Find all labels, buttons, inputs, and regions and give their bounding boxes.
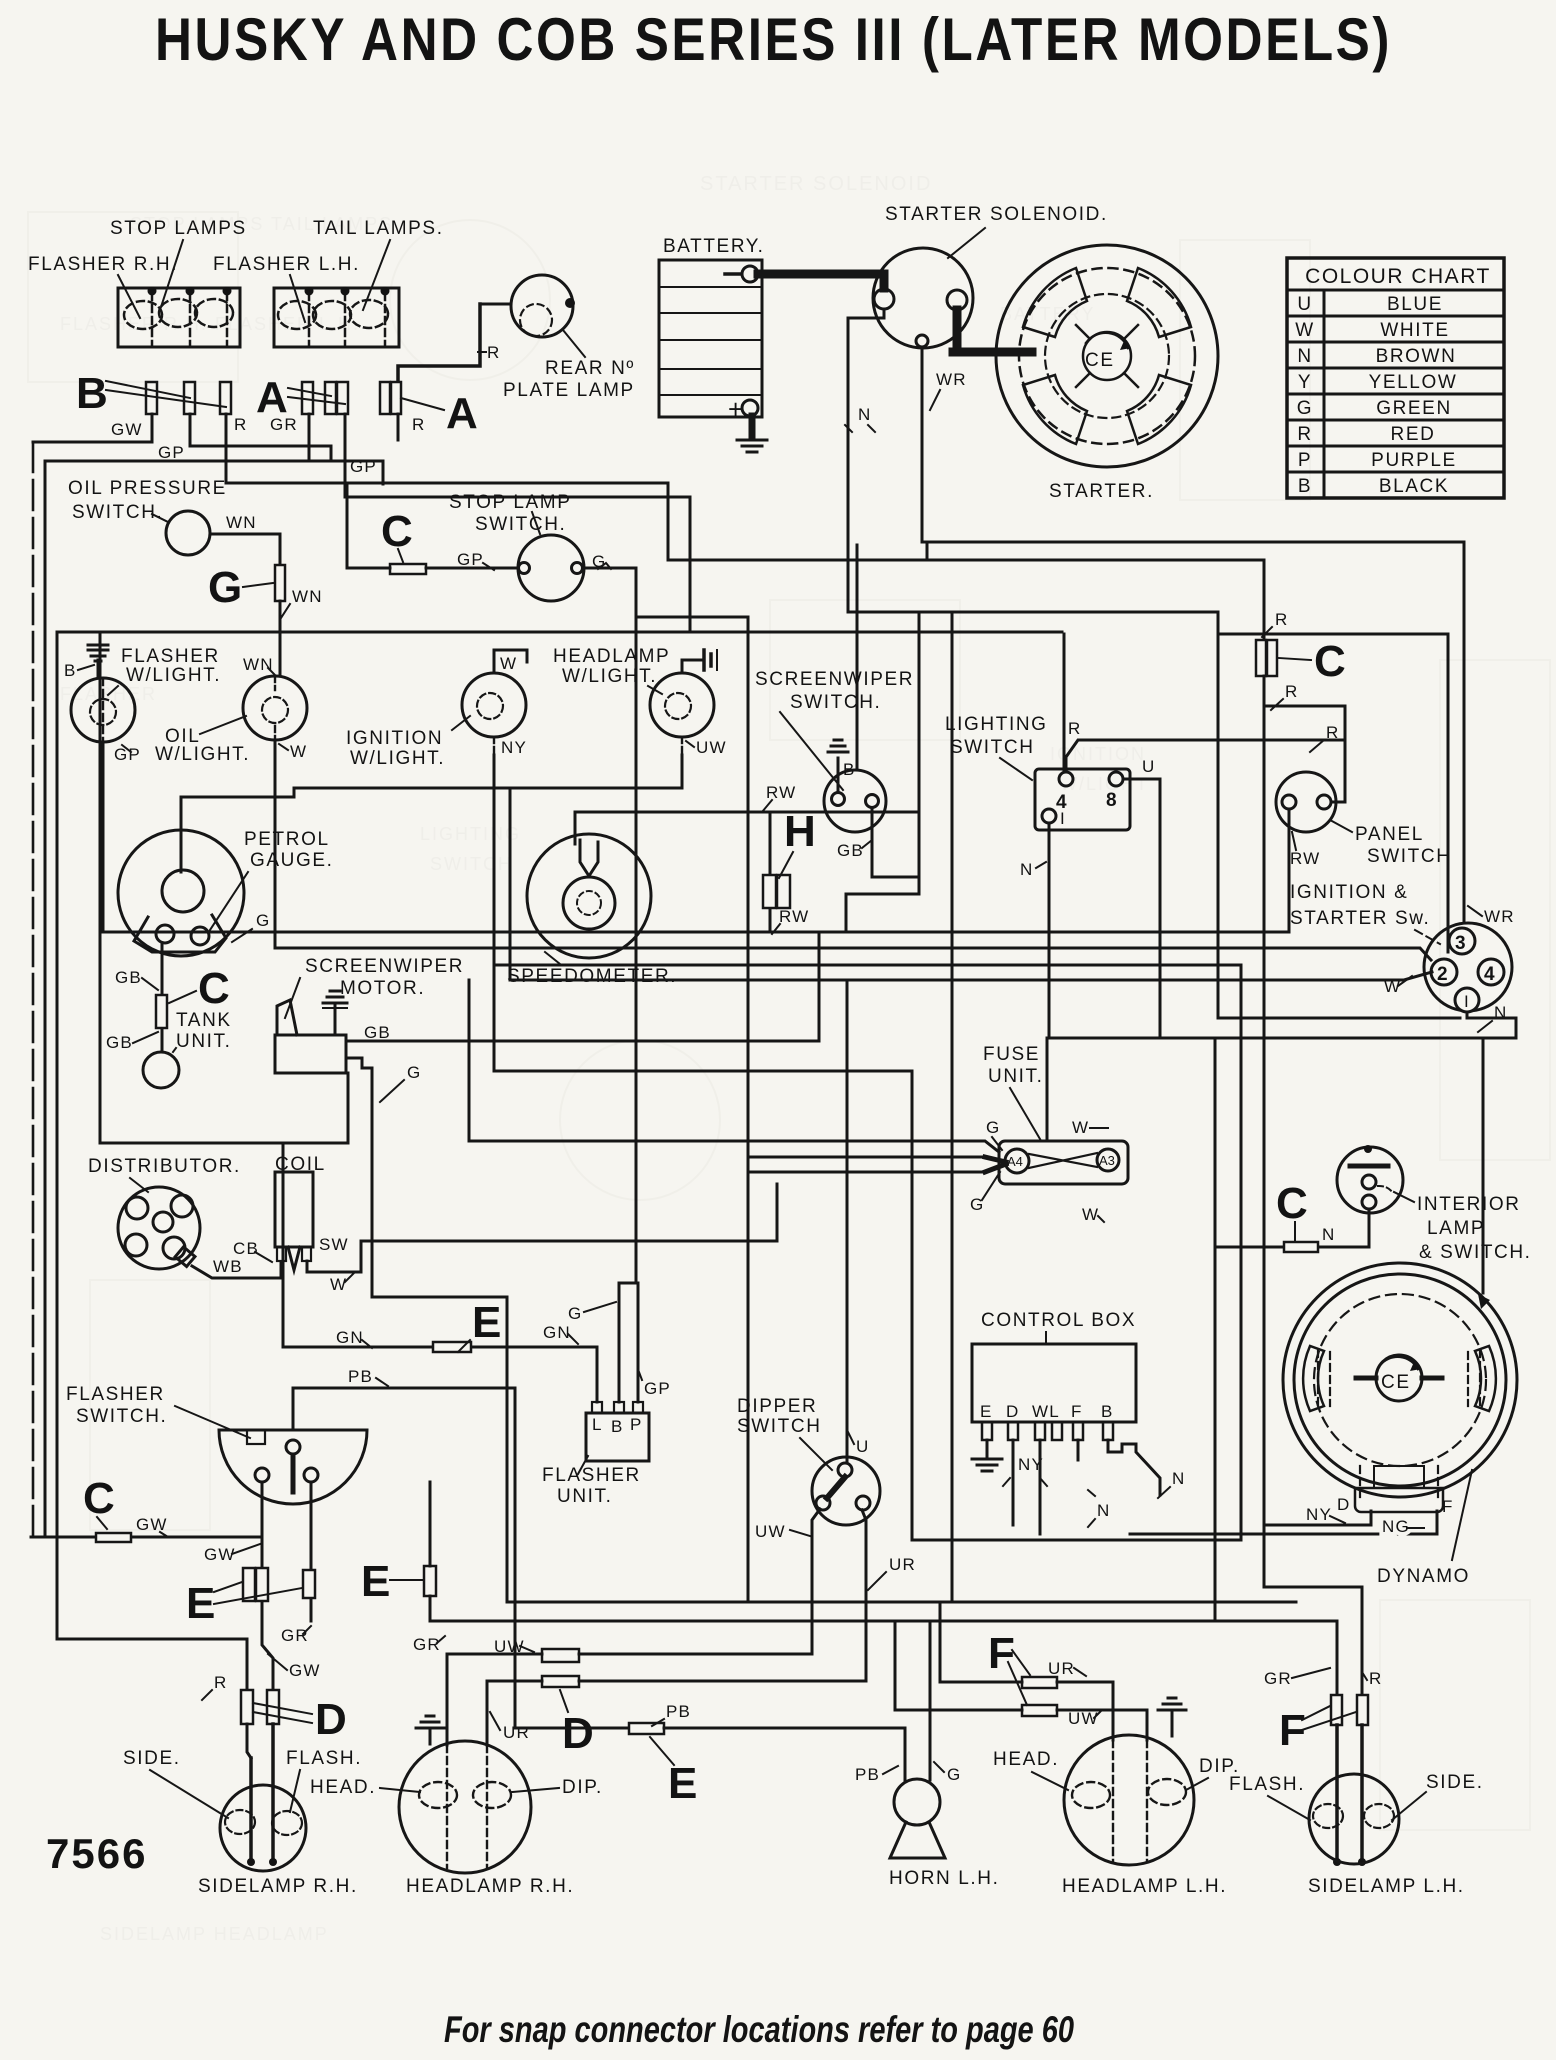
svg-text:D: D	[562, 1709, 594, 1758]
fuse unit	[970, 1044, 1128, 1224]
svg-text:L: L	[592, 1415, 603, 1434]
panel left/right verticals	[100, 632, 348, 1143]
svg-text:DISTRIBUTOR.: DISTRIBUTOR.	[88, 1156, 241, 1177]
control box	[972, 1310, 1136, 1440]
svg-text:STARTER SOLENOID: STARTER SOLENOID	[700, 173, 932, 195]
svg-text:SWITCH: SWITCH	[1367, 846, 1452, 867]
ignition w/light	[346, 673, 526, 769]
svg-text:CONTROL BOX: CONTROL BOX	[981, 1310, 1136, 1331]
svg-text:OIL PRESSURE: OIL PRESSURE	[68, 478, 227, 499]
oil pressure switch	[68, 478, 227, 555]
svg-text:HORN L.H.: HORN L.H.	[889, 1868, 999, 1889]
svg-text:E: E	[361, 1557, 390, 1606]
svg-text:GW: GW	[289, 1661, 321, 1680]
svg-text:D: D	[1006, 1402, 1019, 1421]
svg-text:WN: WN	[292, 587, 323, 606]
wire GP (L.H.)	[345, 414, 690, 632]
svg-text:UNIT.: UNIT.	[176, 1031, 232, 1052]
wire battery to solenoid (thick)	[758, 274, 884, 288]
sidelamp L.H.	[1229, 1772, 1484, 1897]
wire R (left unit) long run to right	[226, 414, 1264, 640]
svg-text:LIGHTING: LIGHTING	[420, 824, 521, 844]
svg-text:GB: GB	[364, 1023, 391, 1042]
tank unit	[143, 1010, 232, 1088]
svg-text:FLASH.: FLASH.	[1229, 1774, 1305, 1795]
wire bus RW	[103, 931, 1288, 934]
wire F from control box	[1077, 1440, 1080, 1460]
svg-text:STARTER.: STARTER.	[1049, 481, 1154, 502]
svg-text:W: W	[1072, 1118, 1089, 1137]
wires to right sidelamp area	[1264, 706, 1362, 1695]
ground headlamp L.H.	[1171, 1712, 1174, 1736]
rear number plate lamp	[480, 275, 635, 401]
svg-text:U: U	[1297, 294, 1312, 315]
wire GR from flasher switch right terminal	[310, 1482, 313, 1621]
connectors F (headlamp L.H.)	[1022, 1677, 1057, 1688]
capacitor/earth symbol right of headlamp w/light	[682, 650, 717, 673]
svg-text:LIGHTING: LIGHTING	[945, 714, 1048, 735]
wire WB distributor to coil	[192, 1262, 281, 1278]
wire R from lighting switch 4	[1066, 740, 1345, 772]
connector C (R, right side)	[1256, 640, 1266, 676]
stop lamp switch	[449, 492, 584, 601]
svg-text:WR: WR	[1484, 907, 1515, 926]
speedometer	[507, 834, 677, 987]
svg-text:G: G	[986, 1118, 1000, 1137]
svg-text:HEAD.: HEAD.	[993, 1749, 1059, 1770]
svg-text:BLUE: BLUE	[1387, 294, 1443, 315]
svg-text:HEAD.: HEAD.	[310, 1777, 376, 1798]
svg-text:R: R	[234, 415, 247, 434]
svg-text:W/LIGHT.: W/LIGHT.	[155, 744, 250, 765]
svg-text:WN: WN	[226, 513, 257, 532]
oil w/light	[155, 655, 307, 765]
svg-text:P: P	[1298, 450, 1312, 471]
svg-text:B: B	[843, 760, 856, 779]
wire N from ignition switch 1	[1049, 1012, 1516, 1038]
wire G to flasher unit B	[618, 1283, 621, 1402]
svg-text:R: R	[412, 415, 425, 434]
wire GP to flasher unit P	[637, 1283, 640, 1402]
wire R from rear lamp to connector A	[398, 304, 480, 381]
svg-text:GP: GP	[158, 443, 185, 462]
wire WN	[210, 534, 280, 565]
svg-text:UR: UR	[1048, 1659, 1075, 1678]
svg-text:PB: PB	[666, 1702, 691, 1721]
svg-text:A: A	[446, 389, 478, 438]
svg-text:CB: CB	[233, 1239, 259, 1258]
svg-text:SIDELAMP L.H.: SIDELAMP L.H.	[1308, 1876, 1465, 1897]
bottom buses	[430, 1602, 1337, 1621]
svg-text:HEADLAMP R.H.: HEADLAMP R.H.	[406, 1876, 574, 1897]
wire R from connector C to panel switch	[1264, 676, 1345, 802]
wire to ignition switch area	[1218, 634, 1448, 952]
svg-text:I: I	[1464, 992, 1470, 1011]
coil	[275, 1154, 355, 1294]
svg-text:R: R	[1369, 1669, 1382, 1688]
wire bus GP	[45, 461, 383, 484]
wire to screenwiper switch	[856, 545, 859, 770]
connector C GW (left)	[31, 1536, 262, 1539]
svg-text:F: F	[1442, 1497, 1454, 1516]
svg-text:FLASHER: FLASHER	[542, 1465, 641, 1486]
svg-text:SIDE.: SIDE.	[1426, 1772, 1484, 1793]
svg-text:RED: RED	[1391, 424, 1436, 445]
svg-text:SWITCH: SWITCH	[430, 854, 513, 874]
ground (battery)	[737, 416, 767, 452]
svg-text:IGNITION &: IGNITION &	[1290, 882, 1408, 903]
ground from E terminal	[986, 1440, 989, 1458]
svg-text:GP: GP	[114, 745, 141, 764]
wire into speedometer	[574, 812, 577, 844]
svg-text:GB: GB	[837, 841, 864, 860]
svg-text:PLATE LAMP: PLATE LAMP	[503, 380, 635, 401]
connector E pair (left)	[243, 1568, 255, 1601]
svg-text:G: G	[208, 563, 242, 612]
svg-text:SCREENWIPER: SCREENWIPER	[305, 956, 464, 977]
svg-text:FUSE: FUSE	[983, 1044, 1040, 1065]
svg-text:A3: A3	[1099, 1153, 1115, 1168]
svg-text:For snap connector locations r: For snap connector locations refer to pa…	[444, 2009, 1074, 2050]
svg-text:WB: WB	[213, 1257, 243, 1276]
svg-text:GN: GN	[543, 1323, 571, 1342]
wires D and WL from control box	[1012, 1440, 1015, 1525]
svg-text:W/LIGHT.: W/LIGHT.	[126, 665, 221, 686]
svg-text:N: N	[1097, 1501, 1110, 1520]
svg-text:PB: PB	[348, 1367, 373, 1386]
svg-text:Y: Y	[1298, 372, 1312, 393]
wire GB to tank unit	[161, 943, 164, 1052]
horn L.H.	[889, 1779, 999, 1889]
svg-text:GW: GW	[136, 1515, 168, 1534]
wire W from oil w/light	[274, 676, 276, 740]
NY / NG wires to dynamo	[1264, 1511, 1371, 1525]
svg-text:GREEN: GREEN	[1376, 398, 1452, 419]
svg-text:UNIT.: UNIT.	[557, 1486, 613, 1507]
svg-text:UW: UW	[696, 738, 727, 757]
svg-text:DIP.: DIP.	[562, 1777, 603, 1798]
svg-text:C: C	[83, 1474, 115, 1523]
svg-text:N: N	[1172, 1469, 1185, 1488]
svg-text:GR: GR	[413, 1635, 441, 1654]
svg-text:W/LIGHT.: W/LIGHT.	[562, 666, 657, 687]
svg-text:DIPPER: DIPPER	[737, 1396, 817, 1417]
connector E (PB horn)	[629, 1723, 664, 1734]
svg-text:4: 4	[1484, 964, 1496, 985]
wire bus W/U	[510, 972, 1432, 980]
wire B/N from control box	[1108, 1440, 1160, 1495]
svg-text:W: W	[290, 742, 307, 761]
svg-text:RW: RW	[1290, 849, 1320, 868]
connectors D (headlamp R.H.)	[446, 1656, 449, 1745]
wire U to dipper	[846, 980, 849, 1463]
labels top-left	[28, 218, 444, 275]
svg-text:STARTER SOLENOID.: STARTER SOLENOID.	[885, 204, 1108, 225]
ghost bleed-through background	[60, 173, 1149, 1944]
wire G from motor down	[346, 1058, 507, 1602]
verticals below interior lamp bus	[1214, 1038, 1217, 1621]
svg-text:RW: RW	[766, 783, 796, 802]
wire W bracket into ignition w/light	[494, 650, 527, 673]
connector C (tank unit)	[156, 995, 167, 1028]
svg-text:E: E	[980, 1402, 993, 1421]
svg-text:SWITCH: SWITCH	[950, 737, 1035, 758]
wire GW from flasher RH	[33, 414, 152, 442]
svg-text:STOP LAMP: STOP LAMP	[449, 492, 571, 513]
petrol gauge	[118, 829, 334, 956]
colour chart	[1287, 258, 1504, 498]
wire GP w/light	[102, 678, 104, 742]
svg-text:U: U	[1142, 757, 1155, 776]
panel switch	[1276, 772, 1452, 868]
svg-text:MOTOR.: MOTOR.	[340, 978, 425, 999]
svg-text:8: 8	[1106, 790, 1118, 811]
wire to stop lamp switch	[347, 567, 518, 570]
wire GB from motor	[346, 932, 819, 1041]
svg-text:GN: GN	[336, 1328, 364, 1347]
svg-text:N: N	[858, 405, 871, 424]
wires into headlamp L.H.	[940, 1602, 1022, 1682]
svg-text:R: R	[214, 1673, 227, 1692]
node B	[76, 369, 226, 418]
svg-text:U: U	[856, 1437, 869, 1456]
wire GW from flasher switch left terminal	[262, 1482, 273, 1690]
wire to dynamo rim	[1482, 1038, 1485, 1293]
wire labels under lamp units	[111, 415, 425, 476]
svg-text:WR: WR	[936, 370, 967, 389]
svg-text:7566: 7566	[46, 1830, 147, 1877]
svg-text:G: G	[407, 1063, 421, 1082]
wire G branch	[636, 616, 748, 619]
distributor	[88, 1156, 241, 1269]
svg-text:PURPLE: PURPLE	[1371, 450, 1457, 471]
svg-text:E: E	[668, 1759, 697, 1808]
svg-text:HEADLAMP: HEADLAMP	[553, 646, 670, 667]
svg-text:RW: RW	[779, 907, 809, 926]
wire R tail L.H. down	[347, 414, 398, 566]
svg-text:GB: GB	[106, 1033, 133, 1052]
wire R riser	[926, 542, 929, 560]
wire into petrol gauge	[181, 788, 294, 872]
wire solenoid to starter (thick)	[953, 310, 1032, 352]
svg-text:STOP LAMPS: STOP LAMPS	[110, 218, 247, 239]
svg-text:TAIL LAMPS.: TAIL LAMPS.	[313, 218, 444, 239]
svg-text:A4: A4	[1007, 1154, 1023, 1169]
lighting switch	[945, 714, 1130, 830]
svg-text:D: D	[315, 1695, 347, 1744]
wire GB from screenwiper switch	[872, 808, 919, 877]
fuse unit feeds	[748, 1156, 985, 1159]
connector C (stop lamp feed)	[390, 564, 426, 574]
svg-text:R: R	[1326, 723, 1339, 742]
stop/tail lamp unit L.H. (box with 3 lamps)	[274, 287, 399, 348]
svg-text:BLACK: BLACK	[1379, 476, 1449, 497]
svg-text:N: N	[1297, 346, 1312, 367]
wire WN down to panel	[279, 601, 282, 676]
wire G vertical	[951, 612, 954, 1602]
wire PB	[294, 1388, 629, 1728]
wire N from solenoid area	[848, 309, 1460, 1018]
svg-text:I: I	[1060, 809, 1066, 828]
wire bus W to ignition switch 2	[275, 948, 1431, 960]
wire N to interior lamp	[1215, 1209, 1369, 1247]
svg-text:PANEL: PANEL	[1355, 824, 1424, 845]
wires UW/UR to dipper	[447, 1654, 812, 1656]
wire WR solenoid to ignition switch	[922, 347, 1464, 923]
svg-text:LAMP: LAMP	[1427, 1218, 1485, 1239]
dynamo	[1283, 1263, 1517, 1587]
svg-text:INTERIOR: INTERIOR	[1417, 1194, 1521, 1215]
dipper switch	[737, 1396, 880, 1525]
flasher unit	[542, 1402, 649, 1507]
svg-text:FLASHER: FLASHER	[66, 1384, 165, 1405]
wire N branch	[846, 612, 919, 932]
connector E single (mid)	[424, 1566, 436, 1596]
wire N from lighting switch 1	[1048, 823, 1051, 1038]
svg-text:HUSKY AND COB SERIES III (LATE: HUSKY AND COB SERIES III (LATER MODELS)	[155, 6, 1392, 73]
svg-text:F: F	[1071, 1402, 1083, 1421]
wire UW from headlamp w/light	[681, 737, 683, 755]
svg-text:G: G	[568, 1304, 582, 1323]
svg-text:B: B	[64, 661, 77, 680]
svg-text:BATTERY.: BATTERY.	[663, 236, 765, 257]
wire RW from panel switch	[1288, 809, 1291, 932]
svg-text:B: B	[611, 1417, 624, 1436]
svg-text:UW: UW	[755, 1522, 786, 1541]
wire GP left	[190, 414, 331, 461]
svg-text:UNIT.: UNIT.	[988, 1066, 1044, 1087]
svg-text:W: W	[500, 654, 517, 673]
svg-text:R: R	[1297, 424, 1312, 445]
svg-text:GP: GP	[457, 550, 484, 569]
wires UW / UR from dipper	[812, 1509, 820, 1654]
svg-text:STARTER Sw.: STARTER Sw.	[1290, 908, 1430, 929]
connectors F (sidelamp L.H.)	[1331, 1695, 1342, 1725]
svg-text:C: C	[1314, 637, 1346, 686]
wire U from lighting switch 8	[1123, 779, 1160, 1038]
wire GN riser	[282, 1143, 285, 1347]
screenwiper motor	[275, 956, 464, 1073]
headlamp L.H.	[993, 1735, 1240, 1897]
wire G to horn	[929, 1621, 932, 1780]
svg-text:R: R	[1285, 682, 1298, 701]
svg-text:SWITCH.: SWITCH.	[475, 514, 566, 535]
svg-text:C: C	[198, 964, 230, 1013]
svg-text:FLASHER: FLASHER	[121, 646, 220, 667]
stop/tail lamp unit R.H. (box with 3 lamps)	[118, 287, 240, 348]
svg-text:W: W	[1295, 320, 1315, 341]
starter	[996, 245, 1218, 502]
snap connectors A / B below lamp units	[146, 382, 401, 414]
svg-text:W: W	[330, 1275, 347, 1294]
svg-text:NG: NG	[1382, 1517, 1410, 1536]
node A (right)	[401, 389, 478, 438]
connector D pair (sidelamp R.H.)	[241, 1690, 253, 1724]
interior lamp & switch	[1337, 1145, 1532, 1263]
left edge vertical wires	[32, 442, 35, 1537]
svg-text:GAUGE.: GAUGE.	[250, 850, 334, 871]
svg-text:R: R	[1275, 610, 1288, 629]
wire G long vertical	[747, 617, 750, 1602]
svg-text:DYNAMO: DYNAMO	[1377, 1566, 1470, 1587]
svg-text:2: 2	[1437, 964, 1449, 985]
svg-text:CE: CE	[1085, 350, 1115, 371]
svg-text:FLASHER R.H.: FLASHER R.H.	[28, 254, 178, 275]
wires into sidelamp RH	[247, 1724, 251, 1758]
svg-text:NY: NY	[501, 738, 527, 757]
svg-text:GR: GR	[1264, 1669, 1292, 1688]
svg-text:GR: GR	[270, 415, 298, 434]
svg-text:N: N	[1322, 1225, 1335, 1244]
svg-text:GB: GB	[115, 968, 142, 987]
svg-text:E: E	[472, 1298, 501, 1347]
svg-text:D: D	[1337, 1495, 1350, 1514]
connector G	[275, 565, 285, 601]
svg-text:G: G	[947, 1765, 961, 1784]
svg-text:& SWITCH.: & SWITCH.	[1419, 1242, 1532, 1263]
wires into sidelamp L.H.	[1337, 1725, 1362, 1862]
w/light panel top rail	[57, 631, 1062, 634]
svg-text:FLASH.: FLASH.	[286, 1748, 362, 1769]
svg-text:COLOUR CHART: COLOUR CHART	[1305, 265, 1491, 288]
svg-text:G: G	[1297, 398, 1313, 419]
svg-text:W/LIGHT.: W/LIGHT.	[350, 748, 445, 769]
battery	[659, 236, 765, 424]
svg-text:P: P	[630, 1415, 643, 1434]
svg-text:GR: GR	[281, 1626, 309, 1645]
svg-text:R: R	[1068, 719, 1081, 738]
svg-text:WN: WN	[243, 655, 274, 674]
ground headlamp RH	[429, 1730, 432, 1744]
headlamp w/light	[553, 646, 714, 737]
svg-text:SPEEDOMETER.: SPEEDOMETER.	[507, 966, 677, 987]
svg-text:GW: GW	[111, 420, 143, 439]
wire PB to horn	[664, 1728, 905, 1780]
svg-text:WHITE: WHITE	[1380, 320, 1449, 341]
svg-text:SWITCH.: SWITCH.	[72, 502, 163, 523]
svg-text:PB: PB	[855, 1765, 880, 1784]
wire GR from flasher LH	[308, 414, 311, 461]
svg-text:CE: CE	[1381, 1372, 1411, 1393]
svg-text:NY: NY	[1306, 1505, 1332, 1524]
headlamp R.H.	[310, 1741, 603, 1897]
svg-text:REAR Nº: REAR Nº	[545, 358, 635, 379]
svg-text:YELLOW: YELLOW	[1369, 372, 1458, 393]
svg-text:SWITCH.: SWITCH.	[76, 1406, 167, 1427]
svg-text:IGNITION: IGNITION	[346, 728, 443, 749]
svg-text:PETROL: PETROL	[244, 829, 330, 850]
flasher switch	[66, 1384, 367, 1504]
wire R down left	[246, 1639, 249, 1690]
svg-text:SIDELAMP R.H.: SIDELAMP R.H.	[198, 1876, 358, 1897]
svg-text:BATTERY: BATTERY	[1000, 304, 1095, 324]
svg-text:H: H	[784, 807, 816, 856]
svg-text:UR: UR	[889, 1555, 916, 1574]
svg-text:N: N	[1020, 860, 1033, 879]
svg-text:SIDELAMP HEADLAMP: SIDELAMP HEADLAMP	[100, 1924, 329, 1944]
flasher w/light	[64, 645, 221, 742]
svg-text:G: G	[256, 911, 270, 930]
svg-text:BROWN: BROWN	[1376, 346, 1457, 367]
svg-text:FLASHER L.H.: FLASHER L.H.	[213, 254, 360, 275]
wire G (stop lamp to flasher unit)	[635, 568, 638, 1283]
svg-text:SIDE.: SIDE.	[123, 1748, 181, 1769]
wire G from stop lamp switch	[583, 567, 636, 570]
ignition & starter switch	[1290, 882, 1515, 1032]
svg-text:HEADLAMP L.H.: HEADLAMP L.H.	[1062, 1876, 1227, 1897]
svg-text:C: C	[1276, 1179, 1308, 1228]
wire SW/W from coil	[307, 1241, 361, 1272]
